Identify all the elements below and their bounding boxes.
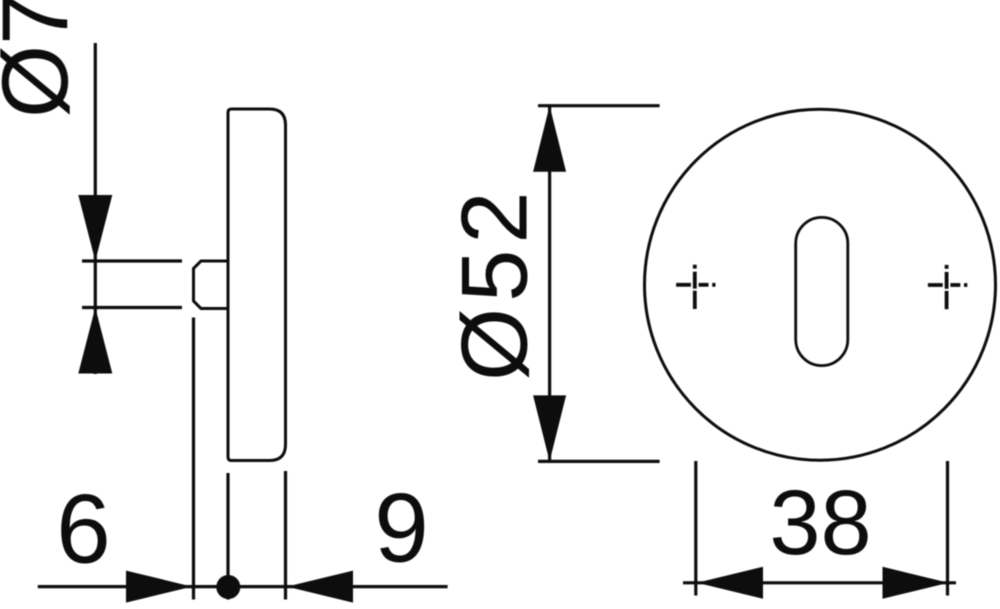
extension line screw hole left (dim 38) xyxy=(694,461,697,596)
rosette side-view plate outline xyxy=(228,109,286,461)
extension line circle top (d52) xyxy=(538,104,660,107)
stem (bolt collar) on side view xyxy=(194,261,229,309)
svg-text:Ø52: Ø52 xyxy=(442,185,547,381)
center mark cross left screw hole xyxy=(676,265,715,309)
extension line circle bottom (d52) xyxy=(538,460,660,463)
junction dot between dims 6 and 9 xyxy=(216,575,240,599)
extension line top of stem (d7) xyxy=(82,259,182,262)
arrowhead dim6 (points right) xyxy=(126,571,192,603)
dimension line 6 and 9 horizontal xyxy=(38,585,448,588)
svg-text:9: 9 xyxy=(374,473,429,583)
rosette front-view circle xyxy=(645,109,996,460)
dimension line d52 vertical xyxy=(548,104,551,462)
extension line bottom of stem (d7) xyxy=(82,306,182,309)
arrowhead dim38 left (points left) xyxy=(697,567,763,599)
arrowhead dim9 (points left) xyxy=(287,571,353,603)
extension line plate right edge (dim 9) xyxy=(284,471,287,600)
arrowhead d52 top (points up) xyxy=(533,106,566,172)
arrowhead d7 bottom (points up) xyxy=(78,308,112,374)
arrowhead d7 top (points down) xyxy=(78,195,112,261)
extension line stem left edge (dim 6) xyxy=(192,318,195,600)
dimension line d7 vertical xyxy=(94,43,97,374)
center mark cross right screw hole xyxy=(928,265,967,309)
extension line plate left edge (dim 6/9) xyxy=(226,473,229,600)
svg-text:6: 6 xyxy=(56,474,111,584)
svg-text:38: 38 xyxy=(769,472,871,574)
arrowhead dim38 right (points right) xyxy=(883,567,949,599)
keyhole slot xyxy=(796,217,848,365)
extension line screw hole right (dim 38) xyxy=(946,461,949,596)
arrowhead d52 bottom (points down) xyxy=(533,395,566,461)
svg-text:Ø7: Ø7 xyxy=(0,0,87,118)
dimension line 38 horizontal xyxy=(683,581,956,584)
